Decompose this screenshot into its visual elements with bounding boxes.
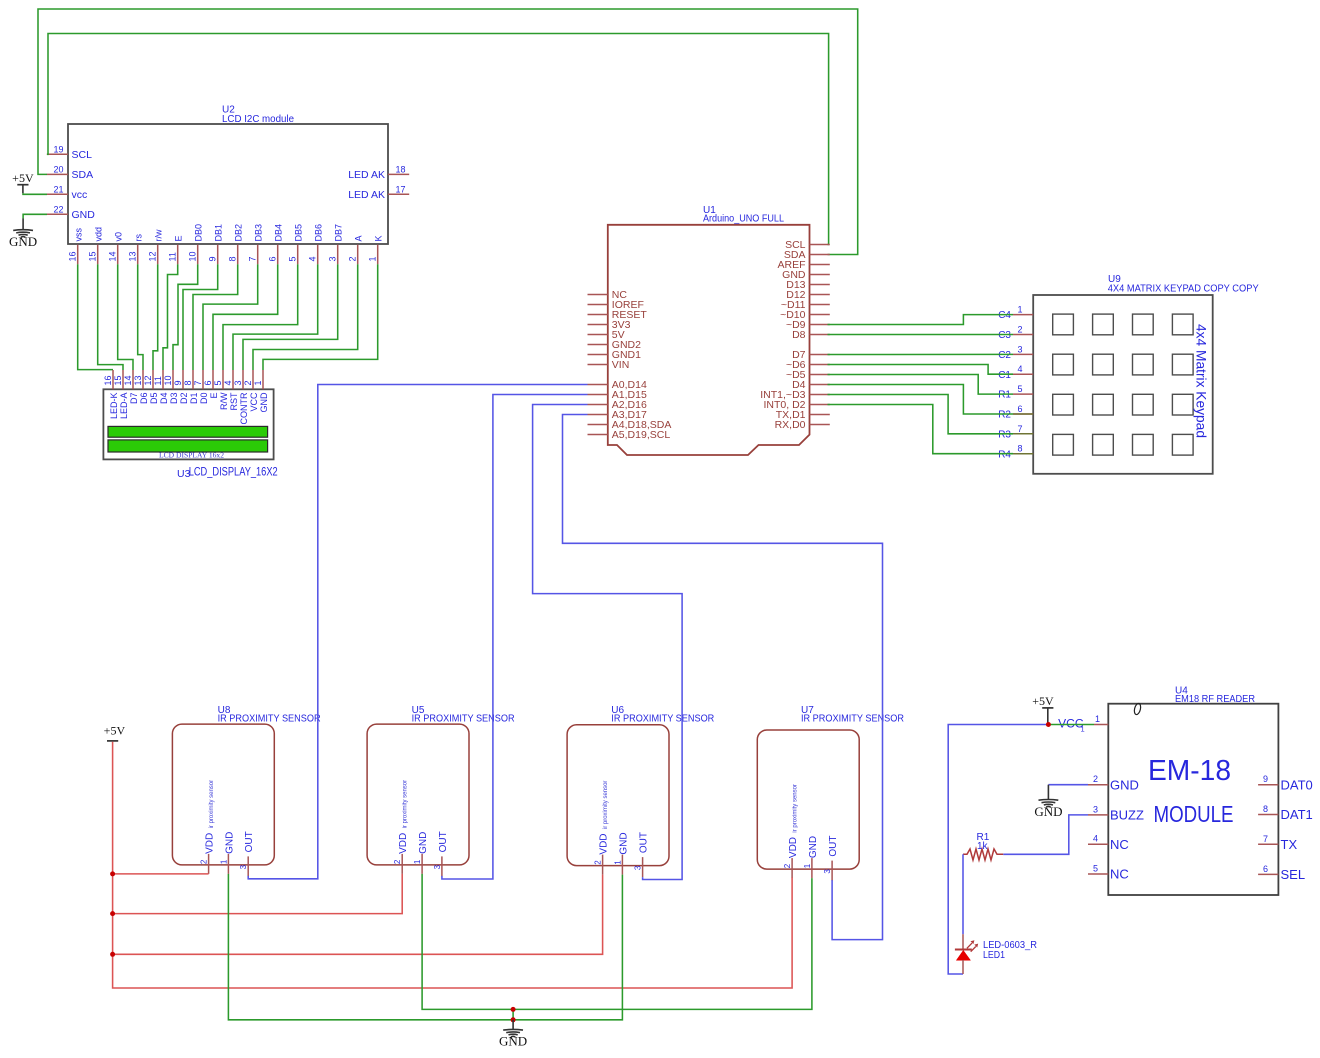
svg-text:5: 5 bbox=[288, 256, 298, 261]
wire U2.8 to U3.8 bbox=[193, 264, 238, 370]
svg-text:DB0: DB0 bbox=[194, 224, 204, 242]
U2 pin 6 DB4 bbox=[268, 224, 284, 264]
svg-text:DB4: DB4 bbox=[274, 224, 284, 242]
svg-text:EM18 RF READER: EM18 RF READER bbox=[1175, 694, 1255, 705]
U3 pin 12 D5 bbox=[143, 370, 159, 404]
wire R1 to LED1 anode bbox=[962, 854, 964, 934]
svg-text:7: 7 bbox=[248, 256, 258, 261]
svg-text:22: 22 bbox=[53, 204, 63, 214]
wire U2.4 to U3.4 bbox=[233, 264, 318, 370]
wire +5V rail vertical bbox=[113, 742, 793, 988]
U2 pin 19 SCL bbox=[47, 144, 92, 161]
svg-text:E: E bbox=[174, 235, 184, 241]
svg-text:2: 2 bbox=[348, 256, 358, 261]
svg-text:D6: D6 bbox=[139, 393, 149, 405]
svg-text:11: 11 bbox=[168, 252, 178, 261]
svg-text:OUT: OUT bbox=[244, 831, 255, 852]
wire U2.12 to U3.12 bbox=[153, 264, 158, 370]
svg-text:DB3: DB3 bbox=[254, 224, 264, 242]
power +5V (U2 vcc) bbox=[12, 171, 34, 193]
U4 pin 2 GND bbox=[1088, 774, 1139, 792]
svg-text:8: 8 bbox=[183, 380, 193, 385]
U1 pin GND1 bbox=[588, 349, 642, 361]
svg-text:C2: C2 bbox=[998, 350, 1011, 361]
svg-text:11: 11 bbox=[153, 376, 163, 385]
svg-text:3: 3 bbox=[1017, 344, 1022, 354]
U2 pin 22 GND bbox=[47, 204, 95, 221]
U9 pin 8 R4 bbox=[998, 444, 1033, 461]
U4 pin 1 VCC bbox=[1058, 714, 1108, 734]
svg-text:GND: GND bbox=[499, 1034, 527, 1049]
U2 pin 5 DB5 bbox=[288, 224, 304, 264]
svg-text:+5V: +5V bbox=[104, 724, 126, 738]
svg-text:LED AK: LED AK bbox=[348, 169, 385, 181]
svg-text:C4: C4 bbox=[998, 310, 1011, 321]
U9 pin 2 C3 bbox=[998, 325, 1033, 342]
U1 pin D12 bbox=[786, 289, 830, 301]
wire U4 BUZZ to R1 bbox=[1003, 815, 1088, 854]
svg-text:GND: GND bbox=[259, 392, 269, 413]
wire rail to U8 VDD bbox=[113, 873, 209, 875]
svg-text:2: 2 bbox=[594, 860, 603, 865]
svg-text:14: 14 bbox=[108, 251, 118, 261]
svg-text:DAT0: DAT0 bbox=[1281, 777, 1313, 792]
svg-text:1: 1 bbox=[368, 256, 378, 261]
U3 pin 11 D4 bbox=[153, 370, 169, 404]
U1 pin INT1,~D3 bbox=[760, 389, 830, 401]
svg-text:E: E bbox=[209, 393, 219, 399]
U1 pin D7 bbox=[792, 349, 830, 361]
junction VCC node bbox=[1046, 722, 1051, 727]
U3 pin 8 D1 bbox=[183, 370, 199, 404]
svg-text:vcc: vcc bbox=[72, 189, 88, 201]
svg-text:OUT: OUT bbox=[828, 835, 839, 856]
svg-text:19: 19 bbox=[53, 144, 63, 154]
svg-text:DB6: DB6 bbox=[314, 224, 324, 242]
U3 pin 16 LED-K bbox=[103, 370, 119, 419]
svg-text:R2: R2 bbox=[998, 410, 1011, 421]
svg-text:LED-K: LED-K bbox=[109, 393, 119, 420]
U1 pin ~D10 bbox=[780, 309, 830, 321]
svg-text:K: K bbox=[374, 235, 384, 241]
svg-text:6: 6 bbox=[203, 380, 213, 385]
U4 pin 6 SEL bbox=[1258, 864, 1305, 882]
wire U2.13 to U3.13 bbox=[138, 264, 143, 370]
U3 pin 14 D7 bbox=[123, 370, 139, 404]
wire U2.3 to U3.3 bbox=[243, 264, 338, 370]
svg-text:GND: GND bbox=[224, 832, 235, 854]
wire +5V to U4 VCC bbox=[1048, 724, 1094, 726]
svg-text:1: 1 bbox=[613, 860, 622, 865]
wire U2.2 to U3.2 bbox=[253, 264, 358, 370]
wire U1 ~D9 to U9 C4 bbox=[828, 315, 1014, 325]
wire vcc to +5V bbox=[23, 193, 47, 194]
wire U1 D2 to U9 R4 bbox=[828, 405, 1014, 454]
U2 pin 14 v0 bbox=[108, 232, 124, 264]
wire U2.7 to U3.7 bbox=[203, 264, 258, 370]
svg-text:4: 4 bbox=[1017, 364, 1022, 374]
svg-text:5: 5 bbox=[213, 380, 223, 385]
U1 pin SCL bbox=[785, 239, 830, 251]
U4 pin 8 DAT1 bbox=[1258, 804, 1313, 822]
svg-text:D2: D2 bbox=[179, 393, 189, 405]
U1 pin 5V bbox=[588, 329, 625, 341]
U3 pin 5 R/W bbox=[213, 370, 229, 410]
svg-text:2: 2 bbox=[783, 863, 792, 868]
svg-text:6: 6 bbox=[268, 256, 278, 261]
svg-text:IR PROXIMITY SENSOR: IR PROXIMITY SENSOR bbox=[412, 713, 515, 724]
U4 pin 3 BUZZ bbox=[1088, 804, 1144, 822]
junction rail-U8 bbox=[110, 871, 115, 876]
U1 pin GND bbox=[782, 269, 830, 281]
svg-text:ir proximity sensor: ir proximity sensor bbox=[402, 779, 409, 828]
junction GND bus upper bbox=[511, 1007, 516, 1012]
U1 pin INT0, D2 bbox=[763, 399, 829, 411]
U2 pin 16 vss bbox=[68, 228, 84, 265]
U1 pin SDA bbox=[784, 249, 830, 261]
svg-text:D8: D8 bbox=[792, 329, 806, 341]
U1 pin D4 bbox=[792, 379, 830, 391]
U1 pin AREF bbox=[777, 259, 829, 271]
svg-text:1: 1 bbox=[1081, 725, 1085, 734]
IC U6 IR proximity sensor body bbox=[567, 705, 714, 866]
svg-text:3: 3 bbox=[328, 256, 338, 261]
svg-text:12: 12 bbox=[143, 375, 153, 385]
wire U1 ~D6 to U9 C1 bbox=[828, 365, 1014, 375]
svg-text:13: 13 bbox=[128, 251, 138, 261]
IC U3 LCD_DISPLAY_16X2 body bbox=[103, 389, 278, 480]
svg-text:5: 5 bbox=[1093, 864, 1098, 874]
svg-text:OUT: OUT bbox=[438, 831, 449, 852]
wire overlap on R3 stub bbox=[1013, 433, 1033, 435]
U1 pin TX,D1 bbox=[776, 409, 830, 421]
wire U1 A1 to U5 OUT bbox=[442, 395, 588, 880]
svg-text:+5V: +5V bbox=[1032, 694, 1054, 708]
svg-text:VIN: VIN bbox=[612, 359, 630, 371]
svg-text:4: 4 bbox=[1093, 834, 1098, 844]
svg-text:6: 6 bbox=[1017, 404, 1022, 414]
svg-text:vss: vss bbox=[74, 228, 84, 242]
U3 pin 3 CONTR bbox=[233, 370, 249, 425]
wire U4 GND to ground bbox=[1048, 784, 1088, 786]
U2 pin 1 K bbox=[368, 235, 384, 264]
svg-text:10: 10 bbox=[163, 375, 173, 385]
U6 pin 3 OUT bbox=[634, 832, 650, 877]
U1 pin ~D11 bbox=[781, 299, 830, 311]
wire U2.16 to U3.16 bbox=[78, 264, 113, 369]
svg-text:2: 2 bbox=[1093, 774, 1098, 784]
svg-text:r/w: r/w bbox=[154, 229, 164, 241]
U9 pin 7 R3 bbox=[998, 424, 1033, 441]
U9 pin 6 R2 bbox=[998, 404, 1033, 421]
svg-text:7: 7 bbox=[193, 380, 203, 385]
U2 pin 3 DB7 bbox=[328, 224, 344, 264]
U4 pin 4 NC bbox=[1088, 834, 1129, 852]
svg-text:DAT1: DAT1 bbox=[1281, 807, 1313, 822]
svg-text:LCD DISPLAY 16x2: LCD DISPLAY 16x2 bbox=[159, 451, 225, 459]
U3 pin 1 GND bbox=[253, 370, 269, 413]
U5 pin 2 VDD bbox=[393, 833, 409, 874]
svg-text:CONTR: CONTR bbox=[239, 392, 249, 424]
U9 key buttons 4x4 grid bbox=[1053, 314, 1193, 455]
wire ground tie bbox=[512, 1009, 514, 1019]
svg-text:NC: NC bbox=[1110, 867, 1129, 882]
svg-text:LED1: LED1 bbox=[983, 950, 1005, 961]
svg-text:R1: R1 bbox=[998, 390, 1011, 401]
ground GND (sensor bus) bbox=[499, 1020, 527, 1049]
svg-text:C1: C1 bbox=[998, 370, 1011, 381]
svg-text:D1: D1 bbox=[189, 393, 199, 405]
IC U5 IR proximity sensor body bbox=[367, 705, 514, 865]
svg-text:LED AK: LED AK bbox=[348, 189, 385, 201]
U3 pin 4 RST bbox=[223, 370, 239, 411]
IC U9 4x4 matrix keypad body bbox=[1033, 274, 1259, 474]
svg-text:4: 4 bbox=[308, 256, 318, 261]
svg-text:D3: D3 bbox=[169, 393, 179, 405]
U5 pin 1 GND bbox=[413, 832, 429, 874]
junction rail-U6 bbox=[110, 952, 115, 957]
svg-text:EM-18: EM-18 bbox=[1148, 755, 1231, 787]
svg-text:IR PROXIMITY SENSOR: IR PROXIMITY SENSOR bbox=[611, 713, 714, 724]
wire U2.5 to U3.5 bbox=[223, 264, 298, 370]
svg-text:2: 2 bbox=[1017, 325, 1022, 335]
svg-text:VDD: VDD bbox=[398, 833, 409, 854]
svg-text:5: 5 bbox=[1017, 384, 1022, 394]
U2 pin 20 SDA bbox=[47, 164, 93, 181]
U4 pin 7 TX bbox=[1258, 834, 1297, 852]
svg-text:1: 1 bbox=[1017, 305, 1022, 315]
svg-text:LED-A: LED-A bbox=[119, 393, 129, 420]
U9 pin 5 R1 bbox=[998, 384, 1033, 401]
U1 pin A3,D17 bbox=[588, 409, 647, 421]
svg-text:GND: GND bbox=[1034, 804, 1062, 819]
svg-text:D0: D0 bbox=[199, 393, 209, 405]
IC U4 EM18 RF reader body bbox=[1108, 686, 1278, 896]
U3 pin 10 D3 bbox=[163, 370, 179, 404]
svg-text:16: 16 bbox=[68, 251, 78, 261]
wire U2.15 to U3.15 bbox=[98, 264, 123, 370]
wire rail to U5 VDD bbox=[113, 874, 403, 914]
svg-text:C3: C3 bbox=[998, 330, 1011, 341]
svg-text:8: 8 bbox=[228, 256, 238, 261]
U1 pin A1,D15 bbox=[588, 389, 647, 401]
svg-text:ir proximity sensor: ir proximity sensor bbox=[208, 779, 215, 828]
U2 pin 12 r/w bbox=[148, 229, 164, 264]
U1 pin RESET bbox=[588, 309, 648, 321]
U1 pin IOREF bbox=[588, 299, 644, 311]
wire SCL net U2.19 to U1 SCL bbox=[47, 34, 829, 245]
svg-text:D7: D7 bbox=[129, 393, 139, 405]
svg-text:R3: R3 bbox=[998, 429, 1011, 440]
wire SDA net U2.20 to U1 SDA bbox=[38, 9, 858, 255]
svg-text:16: 16 bbox=[103, 375, 113, 385]
wire U2.11 to U3.11 bbox=[163, 264, 178, 370]
IC U1 Arduino_UNO FULL body bbox=[608, 205, 810, 455]
wire U1 D4 to U9 R2 bbox=[828, 385, 1014, 415]
resistor R1 1k bbox=[963, 832, 1003, 860]
svg-text:IR PROXIMITY SENSOR: IR PROXIMITY SENSOR bbox=[218, 713, 321, 724]
U1 pin NC bbox=[588, 289, 628, 301]
svg-text:GND: GND bbox=[418, 832, 429, 854]
U3 pin 2 VCC bbox=[243, 370, 259, 412]
U4 pin 9 DAT0 bbox=[1258, 774, 1313, 792]
svg-text:RX,D0: RX,D0 bbox=[775, 419, 806, 431]
svg-text:3: 3 bbox=[1093, 804, 1098, 814]
LED LED1 LED-0603_R bbox=[955, 934, 1037, 974]
svg-text:8: 8 bbox=[1263, 804, 1268, 814]
svg-text:13: 13 bbox=[133, 375, 143, 385]
svg-text:GND: GND bbox=[1110, 777, 1139, 792]
svg-text:R/W: R/W bbox=[219, 392, 229, 410]
svg-text:GND: GND bbox=[808, 836, 819, 858]
U2 pin 17 LED AK bbox=[348, 184, 409, 201]
power +5V (U4 VCC) bbox=[1032, 694, 1054, 723]
U2 pin 21 vcc bbox=[47, 184, 87, 201]
U2 pin 7 DB3 bbox=[248, 224, 264, 264]
wire overlap on R4 stub bbox=[1013, 453, 1033, 455]
svg-text:1: 1 bbox=[803, 863, 812, 868]
svg-text:10: 10 bbox=[188, 251, 198, 261]
U2 pin 10 DB0 bbox=[188, 224, 204, 264]
svg-text:2: 2 bbox=[243, 380, 253, 385]
svg-text:14: 14 bbox=[123, 375, 133, 385]
U6 pin 2 VDD bbox=[594, 833, 610, 874]
wire U2.10 to U3.10 bbox=[173, 264, 198, 370]
U8 pin 1 GND bbox=[219, 832, 235, 874]
U1 pin VIN bbox=[588, 359, 630, 371]
U1 pin D13 bbox=[786, 279, 830, 291]
svg-text:LCD I2C module: LCD I2C module bbox=[222, 114, 294, 125]
svg-text:RST: RST bbox=[229, 392, 239, 411]
ground GND (U2) bbox=[9, 219, 37, 249]
svg-text:TX: TX bbox=[1281, 837, 1298, 852]
U1 pin RX,D0 bbox=[775, 419, 830, 431]
svg-text:+5V: +5V bbox=[12, 171, 34, 185]
U2 pin 8 DB2 bbox=[228, 224, 244, 264]
svg-text:Arduino_UNO FULL: Arduino_UNO FULL bbox=[703, 213, 784, 224]
svg-text:ir proximity sensor: ir proximity sensor bbox=[602, 780, 609, 829]
U1 pin 3V3 bbox=[588, 319, 631, 331]
svg-text:18: 18 bbox=[395, 164, 405, 174]
svg-text:ir proximity sensor: ir proximity sensor bbox=[792, 783, 799, 832]
junction GND bus lower bbox=[511, 1017, 516, 1022]
svg-text:4X4 MATRIX KEYPAD COPY COPY: 4X4 MATRIX KEYPAD COPY COPY bbox=[1108, 283, 1259, 294]
svg-text:DB2: DB2 bbox=[234, 224, 244, 242]
svg-text:4x4 Matrix Keypad: 4x4 Matrix Keypad bbox=[1194, 324, 1210, 438]
svg-text:VDD: VDD bbox=[205, 833, 216, 854]
svg-text:1: 1 bbox=[219, 859, 228, 864]
junction rail-U5 bbox=[110, 911, 115, 916]
U7 pin 1 GND bbox=[803, 836, 819, 878]
U8 pin 2 VDD bbox=[200, 833, 216, 874]
svg-text:7: 7 bbox=[1017, 424, 1022, 434]
svg-text:GND: GND bbox=[9, 234, 37, 249]
U3 pin 6 E bbox=[203, 370, 219, 399]
U2 pin 18 LED AK bbox=[348, 164, 409, 181]
U1 pin ~D9 bbox=[786, 319, 830, 331]
svg-text:NC: NC bbox=[1110, 837, 1129, 852]
svg-text:SCL: SCL bbox=[72, 149, 93, 161]
wire U1 ~D3 to U9 R3 bbox=[828, 395, 1014, 434]
U1 pin ~D5 bbox=[786, 369, 830, 381]
svg-text:v0: v0 bbox=[114, 232, 124, 242]
U9 pin 3 C2 bbox=[998, 344, 1033, 361]
wire U2.6 to U3.6 bbox=[213, 264, 278, 370]
svg-text:GND: GND bbox=[72, 209, 96, 221]
U3 pin 15 LED-A bbox=[113, 370, 129, 419]
wire U1 ~D5 to U9 R1 bbox=[828, 375, 1014, 395]
svg-text:8: 8 bbox=[1017, 444, 1022, 454]
svg-text:4: 4 bbox=[223, 380, 233, 385]
wire U2.9 to U3.9 bbox=[183, 264, 218, 370]
svg-text:3: 3 bbox=[239, 864, 248, 869]
IC U2 LCD I2C module body bbox=[68, 105, 388, 245]
svg-text:9: 9 bbox=[1263, 774, 1268, 784]
svg-text:1: 1 bbox=[413, 859, 422, 864]
svg-text:BUZZ: BUZZ bbox=[1110, 808, 1144, 823]
svg-text:A5,D19,SCL: A5,D19,SCL bbox=[612, 429, 671, 441]
U2 pin 9 DB1 bbox=[208, 224, 224, 264]
wire U1 D7 to U9 C2 bbox=[828, 353, 1014, 355]
svg-text:12: 12 bbox=[148, 251, 158, 261]
svg-text:3: 3 bbox=[823, 869, 832, 874]
wire U2.1 to U3.1 bbox=[263, 264, 378, 370]
U2 pin 13 rs bbox=[128, 234, 144, 265]
U5 pin 3 OUT bbox=[433, 831, 449, 876]
svg-text:SDA: SDA bbox=[72, 169, 94, 181]
wire VCC node to LED branch bbox=[948, 725, 1048, 975]
svg-text:7: 7 bbox=[1263, 834, 1268, 844]
U1 pin ~D6 bbox=[786, 359, 830, 371]
U3 LCD glass row 2 bbox=[108, 440, 268, 452]
svg-text:rs: rs bbox=[134, 234, 144, 242]
svg-text:9: 9 bbox=[173, 380, 183, 385]
svg-text:21: 21 bbox=[53, 184, 63, 194]
svg-text:VDD: VDD bbox=[599, 833, 610, 854]
svg-text:15: 15 bbox=[88, 251, 98, 261]
wire U5 GND to U7 GND bbox=[422, 874, 812, 1010]
svg-text:VCC: VCC bbox=[249, 392, 259, 412]
U2 pin 2 A bbox=[348, 235, 364, 264]
svg-text:MODULE: MODULE bbox=[1154, 801, 1234, 827]
svg-text:R4: R4 bbox=[998, 449, 1011, 460]
svg-text:DB1: DB1 bbox=[214, 224, 224, 242]
svg-text:SEL: SEL bbox=[1281, 867, 1306, 882]
svg-text:A: A bbox=[354, 235, 364, 241]
svg-text:15: 15 bbox=[113, 375, 123, 385]
U2 pin 4 DB6 bbox=[308, 224, 324, 264]
svg-text:DB5: DB5 bbox=[294, 224, 304, 242]
wire U1 A3 to U7 OUT bbox=[563, 415, 883, 940]
U4 pin 5 NC bbox=[1088, 864, 1129, 882]
power +5V (sensor rail) bbox=[104, 724, 126, 741]
wire U1 D8 to U9 C3 bbox=[828, 334, 1014, 336]
U3 pin 13 D6 bbox=[133, 370, 149, 404]
IC U7 IR proximity sensor body bbox=[757, 705, 904, 869]
U1 pin A0,D14 bbox=[588, 379, 647, 391]
U3 pin 7 D0 bbox=[193, 370, 209, 404]
svg-text:1: 1 bbox=[253, 380, 263, 385]
svg-text:20: 20 bbox=[53, 164, 63, 174]
U2 pin 15 vdd bbox=[88, 227, 104, 264]
svg-text:2: 2 bbox=[393, 859, 402, 864]
U6 pin 1 GND bbox=[613, 832, 629, 874]
svg-text:9: 9 bbox=[208, 256, 218, 261]
U7 pin 2 VDD bbox=[783, 837, 799, 878]
U1 pin D8 bbox=[792, 329, 830, 341]
svg-text:OUT: OUT bbox=[639, 832, 650, 853]
wire overlap on R2 stub bbox=[1013, 413, 1033, 415]
